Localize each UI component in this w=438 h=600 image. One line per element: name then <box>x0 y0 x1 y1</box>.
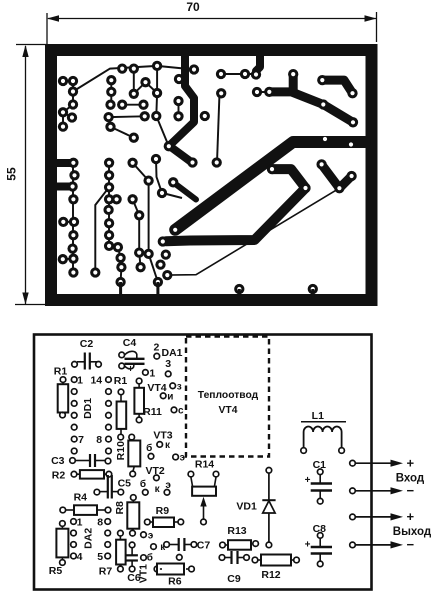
pad <box>90 267 100 277</box>
wire <box>178 101 180 116</box>
thick Z trace upper right <box>269 92 353 122</box>
pin <box>71 401 77 407</box>
dimension 55 left <box>15 45 47 305</box>
svg-text:Теплоотвод: Теплоотвод <box>198 390 259 401</box>
svg-text:б: б <box>140 478 146 490</box>
pin <box>189 566 195 572</box>
pin <box>119 363 125 369</box>
pin <box>171 407 177 413</box>
svg-text:R2: R2 <box>52 470 66 482</box>
pin <box>253 541 259 547</box>
pin <box>220 542 226 548</box>
pad <box>288 69 298 79</box>
svg-text:2: 2 <box>153 342 159 354</box>
svg-text:8: 8 <box>96 434 102 446</box>
pad <box>68 86 78 96</box>
pin <box>106 413 112 419</box>
pad <box>170 225 180 235</box>
wire <box>63 112 72 117</box>
pad <box>316 159 326 169</box>
thick Y trace right <box>322 164 352 188</box>
pin <box>213 471 219 477</box>
pad <box>103 205 113 215</box>
pin <box>164 542 170 548</box>
pad <box>117 100 127 110</box>
pad <box>164 141 174 151</box>
svg-text:14: 14 <box>90 374 102 386</box>
pin <box>71 553 77 559</box>
svg-text:L1: L1 <box>312 410 324 422</box>
pin <box>141 532 147 538</box>
svg-text:б: б <box>147 552 153 564</box>
wire <box>110 80 112 105</box>
pad <box>106 87 116 97</box>
pin <box>129 434 135 440</box>
svg-text:+: + <box>305 540 311 551</box>
pad <box>152 88 162 98</box>
pin <box>317 469 323 475</box>
svg-text:DD1: DD1 <box>82 398 94 419</box>
pin <box>60 377 66 383</box>
thick corner trace right <box>322 80 352 93</box>
pin <box>106 377 112 383</box>
pad <box>134 210 144 220</box>
heatsink dashed box VT4 <box>186 337 269 457</box>
pad <box>334 183 344 193</box>
thick zigzag trace from top frame <box>169 52 194 163</box>
svg-text:R1: R1 <box>114 375 128 387</box>
pad <box>135 262 145 272</box>
pad <box>115 277 125 287</box>
svg-text:R13: R13 <box>227 525 246 537</box>
pin <box>136 378 142 384</box>
pin <box>71 377 77 383</box>
svg-text:+: + <box>128 364 134 375</box>
svg-text:1: 1 <box>77 516 83 528</box>
pin <box>106 436 112 442</box>
wire <box>156 93 192 163</box>
pad <box>157 188 167 198</box>
wire <box>122 104 143 106</box>
pad <box>68 194 78 204</box>
PCB pads <box>58 61 359 297</box>
pin <box>157 442 163 448</box>
wire <box>133 163 149 181</box>
pin <box>165 371 171 377</box>
pad <box>127 158 137 168</box>
svg-text:R9: R9 <box>156 505 170 517</box>
pad <box>347 88 357 98</box>
pin <box>130 471 136 477</box>
pin <box>244 555 250 561</box>
thick stub trace left upper <box>50 159 71 167</box>
pad <box>106 75 116 85</box>
wire <box>217 93 220 162</box>
svg-text:70: 70 <box>186 0 200 14</box>
pad <box>127 194 137 204</box>
pin <box>96 362 102 368</box>
pin <box>173 454 179 460</box>
svg-text:−: − <box>407 483 415 498</box>
pad <box>68 76 78 86</box>
svg-text:C4: C4 <box>123 337 137 349</box>
svg-text:3: 3 <box>165 358 171 370</box>
svg-text:R11: R11 <box>143 406 162 418</box>
wire <box>221 73 256 75</box>
svg-text:C7: C7 <box>197 539 211 551</box>
pad <box>68 99 78 109</box>
pad <box>129 133 139 143</box>
wire <box>149 254 158 282</box>
pin <box>71 389 77 395</box>
pad <box>68 254 78 264</box>
wire <box>63 258 74 261</box>
pin <box>106 424 112 430</box>
pad <box>346 171 356 181</box>
svg-text:5: 5 <box>97 551 103 563</box>
wire <box>109 115 145 118</box>
pad <box>264 87 274 97</box>
svg-text:Выход: Выход <box>393 526 432 538</box>
pin <box>154 353 160 359</box>
pad <box>134 247 144 257</box>
wire <box>165 194 183 199</box>
svg-text:C6: C6 <box>127 572 141 584</box>
pin <box>71 542 77 548</box>
svg-text:1: 1 <box>149 368 155 380</box>
pad <box>240 69 250 79</box>
svg-text:к: к <box>165 440 171 451</box>
pad <box>105 122 115 132</box>
pad <box>173 96 183 106</box>
pin <box>350 460 356 466</box>
wire <box>63 221 74 223</box>
wire <box>108 163 110 246</box>
svg-text:и: и <box>167 392 173 403</box>
pin <box>106 389 112 395</box>
thick stub top center-right <box>256 51 260 71</box>
figure border <box>34 335 372 590</box>
svg-text:C5: C5 <box>118 478 132 490</box>
pad <box>317 75 327 85</box>
pad <box>168 177 178 187</box>
pad <box>173 111 183 121</box>
pad <box>200 111 210 121</box>
pad <box>68 158 78 168</box>
svg-text:R10: R10 <box>115 441 127 460</box>
svg-text:R5: R5 <box>49 565 63 577</box>
svg-text:с: с <box>178 406 184 417</box>
pad <box>58 254 68 264</box>
pin <box>118 489 124 495</box>
pin <box>106 401 112 407</box>
pad <box>111 194 121 204</box>
pin <box>70 458 76 464</box>
pad <box>58 121 68 131</box>
pad <box>318 99 328 109</box>
pin <box>350 514 356 520</box>
pad <box>138 100 148 110</box>
wire <box>156 66 158 93</box>
pad <box>104 230 114 240</box>
pad <box>143 175 153 185</box>
svg-text:+: + <box>407 456 415 471</box>
thin wires network <box>63 66 266 282</box>
pad <box>129 63 139 73</box>
wire <box>73 66 157 92</box>
pad <box>187 157 197 167</box>
pin <box>106 448 112 454</box>
pin <box>154 566 160 572</box>
pin <box>151 544 157 550</box>
pin <box>72 362 78 368</box>
svg-text:C9: C9 <box>227 573 241 585</box>
pin <box>145 519 151 525</box>
wire <box>258 91 266 93</box>
pad <box>68 267 78 277</box>
pin <box>105 507 111 513</box>
pin <box>143 490 149 496</box>
pin <box>118 566 124 572</box>
pin <box>106 471 112 477</box>
svg-text:к: к <box>155 484 161 495</box>
pin <box>350 488 356 494</box>
wire <box>148 181 150 254</box>
pin <box>60 521 66 527</box>
svg-text:VD1: VD1 <box>236 501 257 513</box>
pad <box>104 170 114 180</box>
svg-text:VT4: VT4 <box>219 405 238 416</box>
pin <box>136 417 142 423</box>
svg-text:VT4: VT4 <box>147 382 166 394</box>
svg-text:R4: R4 <box>74 491 88 503</box>
pin <box>71 530 77 536</box>
wire <box>72 163 74 273</box>
pin <box>317 498 323 504</box>
pad <box>216 88 226 98</box>
pin <box>317 561 323 567</box>
wire <box>95 187 109 272</box>
PCB thick traces <box>50 51 365 241</box>
pad <box>267 164 277 174</box>
svg-text:R8: R8 <box>114 501 126 515</box>
svg-text:э: э <box>148 531 154 542</box>
pad <box>140 77 150 87</box>
pin <box>129 542 135 548</box>
pin <box>71 519 77 525</box>
pin <box>131 495 137 501</box>
pin <box>119 352 125 358</box>
pad <box>143 249 153 259</box>
pin <box>178 519 184 525</box>
pad <box>104 218 114 228</box>
pin <box>301 448 307 454</box>
pin <box>294 557 300 563</box>
svg-text:7: 7 <box>78 434 84 446</box>
pin <box>129 566 135 572</box>
pad <box>104 182 114 192</box>
pin <box>130 530 136 536</box>
pad <box>68 230 78 240</box>
pad <box>104 158 114 168</box>
pin <box>201 519 207 525</box>
pad <box>189 64 199 74</box>
pin <box>60 507 66 513</box>
pad <box>67 181 77 191</box>
pin <box>141 555 147 561</box>
wire <box>139 215 140 267</box>
pad <box>67 112 77 122</box>
wire <box>156 159 162 193</box>
svg-text:+: + <box>407 509 415 524</box>
pad <box>212 157 222 167</box>
wire <box>120 258 123 282</box>
pin <box>143 370 149 376</box>
pin <box>191 542 197 548</box>
pad <box>161 249 171 259</box>
pin <box>339 448 345 454</box>
pin <box>60 412 66 418</box>
pad <box>67 243 77 253</box>
svg-text:4: 4 <box>77 551 83 563</box>
pin <box>266 468 272 474</box>
pin <box>154 475 160 481</box>
pad <box>140 111 150 121</box>
wire <box>134 69 157 94</box>
pin <box>71 448 77 454</box>
pin <box>105 542 111 548</box>
pad <box>113 242 123 252</box>
pin <box>71 471 77 477</box>
thin diagonal wire bottom right <box>167 188 339 275</box>
pin <box>188 471 194 477</box>
pin <box>71 413 77 419</box>
svg-text:R14: R14 <box>195 459 214 471</box>
wire <box>62 112 64 126</box>
pin <box>94 489 100 495</box>
dimension 70 top <box>47 12 377 44</box>
pad <box>58 76 68 86</box>
pad <box>103 112 113 122</box>
svg-text:R1: R1 <box>54 366 68 378</box>
pin <box>177 555 183 561</box>
pin <box>118 434 124 440</box>
pad <box>116 262 126 272</box>
wire <box>63 105 73 113</box>
pin <box>317 533 323 539</box>
wire <box>118 247 121 258</box>
pin <box>105 553 111 559</box>
pad holes on thick band <box>323 137 327 141</box>
svg-text:C2: C2 <box>80 338 94 350</box>
pin <box>105 458 111 464</box>
pin <box>266 542 272 548</box>
pad <box>174 74 184 84</box>
pad <box>129 89 139 99</box>
pad <box>58 107 68 117</box>
svg-text:б: б <box>146 442 152 454</box>
pin <box>118 530 124 536</box>
svg-text:R12: R12 <box>261 569 280 581</box>
pad <box>234 284 244 294</box>
pin <box>71 424 77 430</box>
pad <box>153 277 163 287</box>
pin <box>71 436 77 442</box>
pad <box>300 183 310 193</box>
pad <box>105 100 115 110</box>
pad <box>115 253 125 263</box>
big thick diagonal with horizontal band <box>175 142 365 230</box>
svg-text:э: э <box>180 453 186 464</box>
thick branch to big diagonal <box>173 182 196 199</box>
bottom stub wires <box>121 282 313 297</box>
svg-text:1: 1 <box>77 374 83 386</box>
svg-text:Вход: Вход <box>396 473 425 485</box>
pad <box>151 154 161 164</box>
pin <box>170 383 176 389</box>
svg-text:C3: C3 <box>51 455 65 467</box>
svg-text:+: + <box>305 475 311 486</box>
pin <box>160 393 166 399</box>
pad <box>251 69 261 79</box>
pad <box>152 61 162 71</box>
pad <box>104 241 114 251</box>
pad <box>117 63 127 73</box>
wire <box>63 80 73 82</box>
pad <box>69 217 79 227</box>
pad <box>104 194 114 204</box>
wire <box>157 66 194 70</box>
pin <box>118 389 124 395</box>
svg-text:55: 55 <box>5 167 19 181</box>
pin <box>350 542 356 548</box>
svg-text:R7: R7 <box>99 566 113 578</box>
wire <box>133 199 140 215</box>
pin <box>105 519 111 525</box>
PCB board frame <box>51 50 372 300</box>
pad <box>155 259 165 269</box>
pad <box>58 217 68 227</box>
svg-text:8: 8 <box>97 516 103 528</box>
pin <box>60 560 66 566</box>
wire <box>72 81 74 105</box>
pad <box>151 111 161 121</box>
pad <box>158 236 168 246</box>
thick Z riser <box>289 74 298 92</box>
svg-text:DA2: DA2 <box>83 528 95 549</box>
svg-text:−: − <box>407 537 415 552</box>
pin <box>252 557 258 563</box>
svg-text:R6: R6 <box>168 576 182 588</box>
inner thick hook trace <box>166 169 306 241</box>
svg-text:з: з <box>177 382 182 393</box>
thick stub trace left lower <box>50 183 70 191</box>
pad <box>216 69 226 79</box>
pad <box>252 87 262 97</box>
pad <box>69 170 79 180</box>
pad <box>308 284 318 294</box>
pin <box>219 555 225 561</box>
wire <box>111 127 134 138</box>
pin <box>164 490 170 496</box>
pad <box>162 270 172 280</box>
pin <box>105 530 111 536</box>
pin <box>148 454 154 460</box>
pad <box>348 117 358 127</box>
wire <box>109 198 117 200</box>
wire <box>109 246 118 247</box>
